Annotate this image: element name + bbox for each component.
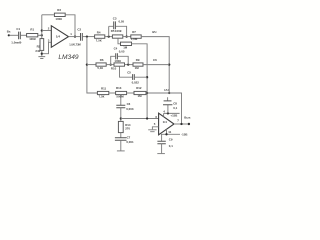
node C9 junction xyxy=(165,133,167,135)
svg-text:1,0/0,73М: 1,0/0,73М xyxy=(69,43,81,47)
capacitor C8 xyxy=(163,101,172,105)
svg-text:100К: 100К xyxy=(55,17,62,21)
wire R4 to A xyxy=(105,36,112,38)
wire R11 to R13 xyxy=(109,92,116,94)
svg-text:C8: C8 xyxy=(173,101,177,105)
resistor R5 xyxy=(112,35,122,38)
svg-text:R4: R4 xyxy=(97,31,101,35)
wire R2 to ground xyxy=(41,50,43,56)
ground pin5 xyxy=(148,130,156,132)
resistor R9 xyxy=(133,63,143,66)
wire R6 to A2 xyxy=(106,64,114,66)
wire left rail down xyxy=(87,37,98,93)
svg-text:R10: R10 xyxy=(111,66,117,70)
svg-text:R6: R6 xyxy=(100,58,104,62)
wire C2 to R4 xyxy=(83,36,95,38)
capacitor C1 xyxy=(19,32,21,40)
svg-text:0,05: 0,05 xyxy=(119,50,125,54)
capacitor C5 xyxy=(133,74,135,80)
resistor R7 xyxy=(131,35,141,38)
capacitor C6 xyxy=(116,105,125,107)
svg-text:ВЧ: ВЧ xyxy=(152,30,156,34)
node B2 xyxy=(127,63,129,65)
svg-text:0,1: 0,1 xyxy=(169,144,173,148)
node rail169 row2 xyxy=(168,63,170,65)
svg-text:R11: R11 xyxy=(101,86,107,90)
wire pin4 supply xyxy=(164,113,180,116)
wire C7 to ground xyxy=(120,140,122,150)
wire C6 stub xyxy=(120,95,122,105)
node A xyxy=(108,35,110,37)
svg-text:5,1К: 5,1К xyxy=(97,66,103,70)
node Out terminal xyxy=(188,123,190,125)
svg-text:1,0мкФ: 1,0мкФ xyxy=(11,41,22,45)
svg-text:1,0М: 1,0М xyxy=(131,37,138,41)
wire C9 stub xyxy=(161,134,163,141)
wire R9 to rail169 xyxy=(143,64,169,66)
wire C8 stub xyxy=(167,97,169,113)
node ground junction xyxy=(41,53,43,55)
resistor R14 xyxy=(118,121,123,132)
svg-text:1М: 1М xyxy=(138,94,143,98)
resistor R1 xyxy=(27,34,38,37)
wire R13 to R12 xyxy=(127,92,134,94)
wire rail A vertical xyxy=(108,26,110,36)
svg-text:R7: R7 xyxy=(132,30,136,34)
svg-text:1/4: 1/4 xyxy=(163,120,168,124)
node input junction xyxy=(41,34,43,36)
wire R1 to node xyxy=(38,34,42,36)
node C5 rail junction xyxy=(146,76,148,78)
wire C4 branch xyxy=(111,56,129,64)
resistor R12 xyxy=(134,91,146,94)
wire R3 top left xyxy=(42,14,54,16)
svg-text:C1: C1 xyxy=(16,27,20,31)
wire C3 branch top xyxy=(109,26,127,36)
svg-text:-15В: -15В xyxy=(181,133,187,137)
wire to pin 2 xyxy=(42,30,52,32)
svg-text:R3: R3 xyxy=(57,8,61,12)
wire C6 to bottom node xyxy=(120,108,122,122)
svg-text:100К: 100К xyxy=(114,59,121,63)
ground C9 xyxy=(157,153,165,155)
node feedback-output junction xyxy=(74,35,76,37)
svg-text:R1: R1 xyxy=(30,28,34,32)
svg-text:24К: 24К xyxy=(35,49,40,53)
wire R3 right down to output xyxy=(65,15,75,37)
wire R5 bottom stub to R8 xyxy=(118,38,121,44)
svg-text:Вых: Вых xyxy=(184,115,191,119)
svg-text:С9: С9 xyxy=(169,138,173,142)
svg-text:C7: C7 xyxy=(127,136,131,140)
wire pin11 supply xyxy=(161,129,180,134)
svg-text:0,001: 0,001 xyxy=(126,140,134,144)
resistor R11 xyxy=(97,91,108,94)
capacitor C7 xyxy=(115,138,127,141)
ground xyxy=(38,57,45,59)
svg-text:1М: 1М xyxy=(135,66,140,70)
resistor R4 xyxy=(95,35,105,38)
svg-text:0,05: 0,05 xyxy=(119,20,125,24)
wire pin5 to ground xyxy=(152,127,158,130)
node B xyxy=(125,35,127,37)
svg-text:R12: R12 xyxy=(136,86,142,90)
svg-text:R13: R13 xyxy=(116,86,122,90)
wire inverting rail xyxy=(41,15,43,39)
svg-text:100К: 100К xyxy=(29,37,36,41)
node C8 junction xyxy=(167,112,169,114)
svg-text:Вх: Вх xyxy=(7,30,11,34)
wire R14 to C7 xyxy=(120,133,122,138)
wire R5 to R7 xyxy=(123,36,131,38)
svg-text:7,5К: 7,5К xyxy=(99,95,105,99)
wire row2 left xyxy=(87,64,96,66)
wire output stage2 xyxy=(174,123,189,125)
wire pin 3 to ground node xyxy=(43,42,52,53)
wire C9 to ground xyxy=(161,144,163,154)
node output feedback junction xyxy=(180,123,182,125)
svg-text:C3: C3 xyxy=(113,16,117,20)
svg-text:0,1: 0,1 xyxy=(173,106,177,110)
svg-text:LM349: LM349 xyxy=(58,54,78,61)
op-amp U1.2 xyxy=(159,113,174,135)
wire R10 to R9 xyxy=(125,64,134,66)
svg-text:С6: С6 xyxy=(153,58,157,62)
wire R7 to right turn xyxy=(141,37,169,93)
svg-text:11: 11 xyxy=(168,130,171,134)
capacitor C4 xyxy=(116,53,118,59)
resistor R6 xyxy=(96,63,106,66)
node In terminal xyxy=(8,34,10,36)
capacitor C9 xyxy=(157,141,165,144)
node rail147 row3 xyxy=(146,92,148,94)
svg-text:0,022: 0,022 xyxy=(132,80,140,84)
wire C1 to R1 xyxy=(21,34,27,36)
wire C5 branch xyxy=(120,66,148,77)
node left rail row2 junction xyxy=(86,63,88,65)
resistor R10 xyxy=(114,63,125,66)
svg-text:270: 270 xyxy=(125,127,130,131)
node A2 xyxy=(110,63,112,65)
wire R12 to feedback corner xyxy=(146,93,182,124)
svg-text:C5: C5 xyxy=(127,70,131,74)
node C2 junction xyxy=(86,35,88,37)
svg-text:НЧ: НЧ xyxy=(164,88,168,92)
wire bottom to op-amp pin6 xyxy=(121,118,159,120)
resistor R13 xyxy=(116,91,127,94)
wire output to C2 xyxy=(69,36,81,38)
op-amp U1.1 xyxy=(51,26,68,48)
svg-text:500М: 500М xyxy=(116,95,124,99)
resistor R3 xyxy=(54,13,65,16)
svg-text:0,003: 0,003 xyxy=(126,107,134,111)
svg-text:+15В: +15В xyxy=(170,114,177,118)
svg-text:С6: С6 xyxy=(127,102,131,106)
resistor R8 xyxy=(121,42,132,45)
svg-text:C4: C4 xyxy=(114,46,118,50)
node rail169 row3 xyxy=(168,92,170,94)
svg-text:R9: R9 xyxy=(136,58,140,62)
ground C7 xyxy=(117,150,125,152)
svg-text:1/4: 1/4 xyxy=(56,34,61,38)
node C6-R14 junction xyxy=(120,117,122,119)
svg-text:C2: C2 xyxy=(77,27,81,31)
wire R8 to rail147 xyxy=(132,44,148,119)
resistor R2 xyxy=(40,39,44,51)
wire input to C1 xyxy=(10,34,19,36)
svg-text:R2: R2 xyxy=(37,44,41,48)
capacitor C3 xyxy=(114,21,116,29)
capacitor C2 xyxy=(81,33,83,41)
node pin2 junction xyxy=(41,29,43,31)
node rail147 bottom junction xyxy=(146,117,148,119)
svg-text:100К: 100К xyxy=(115,29,122,33)
svg-text:7,5К: 7,5К xyxy=(96,38,102,42)
